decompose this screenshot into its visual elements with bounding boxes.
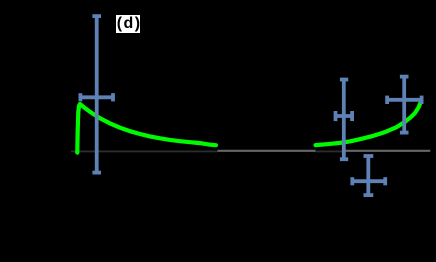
panel label (d) [116, 15, 140, 33]
zero line bright segment middle [218, 150, 316, 152]
error bar point 2 horizontal [336, 111, 353, 121]
error bar point 1 vertical [92, 16, 101, 173]
error bar point 3 horizontal [387, 96, 422, 104]
error bar point 4 vertical [364, 156, 374, 195]
green curve left segment [77, 104, 216, 153]
zero line bright segment far right [343, 150, 431, 152]
zero line dark segment right [316, 150, 343, 152]
error bar point 3 vertical [400, 77, 409, 133]
error bar point 1 horizontal [80, 93, 113, 101]
green curve right segment [316, 102, 422, 146]
error bar point 2 vertical [340, 80, 348, 160]
zero line dark segment left [71, 150, 218, 152]
error bar point 4 horizontal [352, 177, 385, 185]
